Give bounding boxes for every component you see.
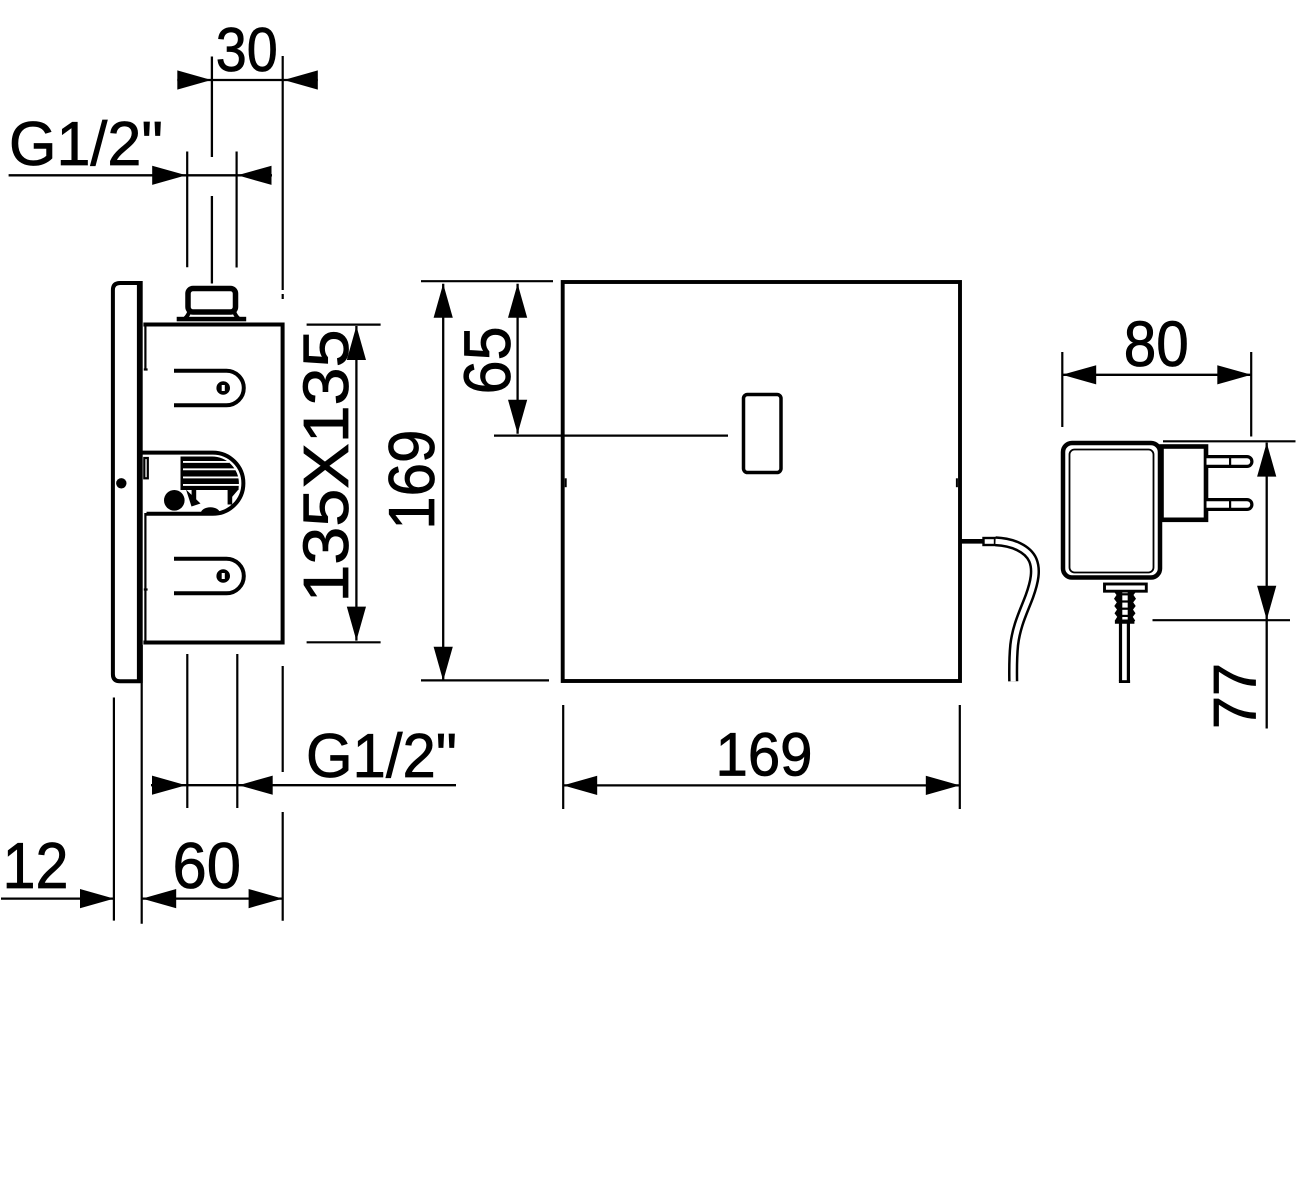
square bottom-left extension bbox=[562, 705, 564, 809]
solenoid outline bbox=[142, 453, 243, 514]
upper keyhole slot bbox=[174, 371, 244, 406]
upper slot pin bbox=[216, 381, 230, 395]
strain relief ribs bbox=[1114, 591, 1136, 623]
solenoid bottom bump bbox=[201, 507, 220, 513]
sensor window bbox=[744, 395, 782, 473]
plate right extension line bbox=[141, 645, 143, 924]
svg-text:77: 77 bbox=[1201, 663, 1268, 729]
solenoid wedge bbox=[186, 490, 201, 507]
dimension 65 line bbox=[516, 284, 518, 434]
svg-text:30: 30 bbox=[216, 16, 278, 85]
svg-text:135X135: 135X135 bbox=[290, 330, 362, 603]
screw dot on plate bbox=[116, 478, 126, 488]
lower slot pin bbox=[216, 569, 230, 583]
square top extension line bbox=[421, 280, 553, 282]
body left edge thin segments bbox=[144, 327, 146, 371]
dimension 60 line bbox=[142, 897, 282, 899]
plug block bbox=[1162, 447, 1207, 520]
80 right extension bbox=[1250, 352, 1252, 437]
169 vertical bottom arrow bbox=[434, 647, 453, 681]
dimension 30 line bbox=[177, 79, 317, 81]
bottom G1/2 right arrow bbox=[239, 776, 273, 795]
77 bottom extension line bbox=[1153, 619, 1291, 621]
77 bottom arrow bbox=[1257, 586, 1276, 620]
65 top arrow bbox=[508, 284, 527, 318]
extension line right of 30 bbox=[282, 56, 284, 290]
135X135 bottom arrow bbox=[347, 607, 366, 641]
dimension 60 left arrow bbox=[142, 889, 176, 908]
svg-text:80: 80 bbox=[1124, 308, 1189, 380]
77 top arrow bbox=[1257, 443, 1276, 477]
169 vertical top arrow bbox=[434, 284, 453, 318]
cable tube bbox=[996, 541, 1035, 681]
bottom G1/2 left arrow bbox=[152, 776, 186, 795]
cover plate square bbox=[563, 282, 960, 681]
dimension 135X135 line bbox=[355, 326, 357, 641]
135X135 extension ticks bbox=[307, 324, 381, 326]
solenoid legs bbox=[192, 490, 197, 505]
svg-text:169: 169 bbox=[716, 720, 813, 788]
G1/2 top right arrow bbox=[238, 166, 272, 185]
77 top extension line bbox=[1163, 440, 1296, 442]
seam tick right bbox=[956, 478, 958, 487]
seam tick left bbox=[565, 478, 567, 487]
dimension 169 vertical line bbox=[442, 284, 444, 681]
pipe edge extension lines top bbox=[186, 152, 188, 268]
adapter body outer bbox=[1063, 443, 1160, 578]
65 bottom arrow bbox=[508, 400, 527, 434]
lower keyhole slot bbox=[174, 559, 244, 594]
80 left extension bbox=[1061, 352, 1063, 427]
svg-text:169: 169 bbox=[375, 430, 448, 530]
solenoid ball bbox=[164, 490, 185, 511]
inlet nut G1/2 bbox=[188, 289, 236, 313]
169 bottom right arrow bbox=[926, 776, 960, 795]
svg-text:12: 12 bbox=[3, 829, 69, 902]
wall plate right edge bbox=[137, 281, 143, 683]
sensor center extension line bbox=[494, 435, 728, 437]
square bottom extension line bbox=[421, 679, 549, 681]
svg-text:60: 60 bbox=[173, 829, 242, 902]
nut taper left bbox=[185, 312, 190, 319]
svg-text:G1/2": G1/2" bbox=[306, 722, 457, 791]
svg-text:65: 65 bbox=[450, 326, 524, 394]
dimension 30 left arrow bbox=[177, 70, 211, 89]
strain relief channel bbox=[1122, 593, 1127, 620]
dimension 30 right arrow bbox=[284, 70, 318, 89]
cable connector bbox=[984, 538, 996, 545]
135X135 top arrow bbox=[347, 326, 366, 360]
G1/2 top dimension line bbox=[9, 174, 272, 176]
80 left arrow bbox=[1062, 365, 1096, 384]
adapter body inner line bbox=[1070, 450, 1154, 573]
dimension 169 bottom line bbox=[563, 784, 960, 786]
dimension 77 line bbox=[1266, 443, 1268, 729]
dimension 12 line bbox=[1, 897, 114, 899]
cord bbox=[1119, 624, 1122, 682]
plate left extension line bbox=[113, 698, 115, 921]
pipe centerline bbox=[211, 57, 213, 158]
plug pin top bbox=[1207, 457, 1252, 467]
dimension 12 arrow bbox=[80, 889, 114, 908]
solenoid coil block bbox=[181, 456, 239, 490]
G1/2 top left arrow bbox=[152, 166, 186, 185]
svg-text:G1/2": G1/2" bbox=[9, 110, 163, 179]
nut flange bbox=[177, 317, 247, 322]
80 right arrow bbox=[1217, 365, 1251, 384]
valve body box bbox=[143, 325, 282, 643]
adapter neck bbox=[1105, 584, 1147, 591]
nut taper right bbox=[234, 312, 239, 319]
dimension 80 line bbox=[1062, 374, 1251, 376]
169 bottom left arrow bbox=[563, 776, 597, 795]
coil stripes bbox=[183, 461, 229, 463]
plug pin bottom bbox=[1207, 500, 1252, 510]
cable stub bbox=[961, 539, 984, 544]
bottom G1/2 dimension line bbox=[151, 784, 456, 786]
body left notch bbox=[144, 458, 148, 478]
wall plate bbox=[113, 283, 141, 681]
pipe edge extension lines bottom bbox=[186, 654, 188, 808]
square bottom-right extension bbox=[959, 705, 961, 809]
dimension 60 right arrow bbox=[249, 889, 283, 908]
